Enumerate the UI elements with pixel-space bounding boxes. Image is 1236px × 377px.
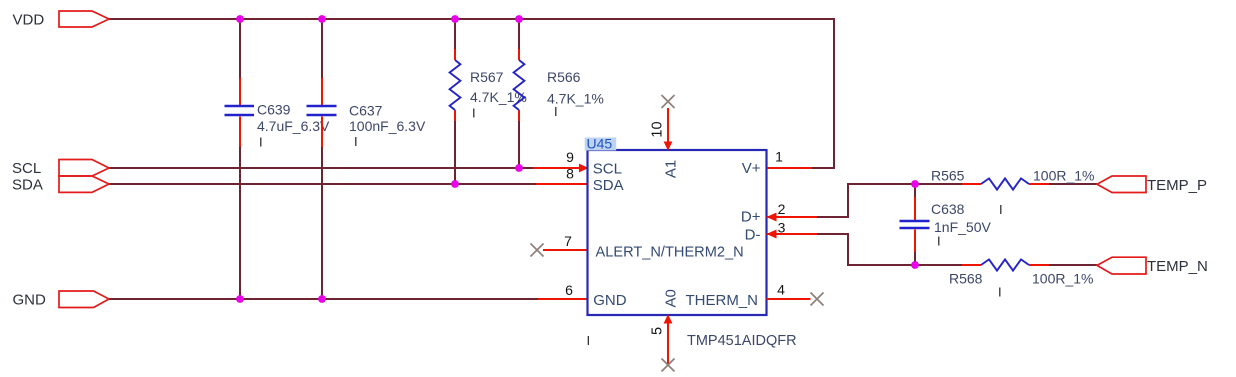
wire C638 branch vertical — [914, 184, 916, 265]
svg-text:GND: GND — [13, 292, 47, 309]
svg-text:I: I — [259, 135, 263, 150]
svg-text:V+: V+ — [742, 160, 761, 177]
wire SCL horizontal — [109, 167, 533, 169]
pin 5 arrow — [664, 314, 673, 323]
svg-text:4.7uF_6.3V: 4.7uF_6.3V — [257, 118, 330, 134]
svg-text:I: I — [472, 106, 476, 121]
svg-text:VDD: VDD — [13, 12, 45, 29]
wire pin5 A0 — [667, 324, 669, 365]
svg-text:I: I — [937, 234, 941, 249]
junction SDA/R567 — [451, 180, 459, 188]
wire C639 branch — [239, 19, 241, 299]
svg-text:R567: R567 — [470, 69, 504, 85]
wire pin3 D- red stub — [767, 233, 818, 235]
wire pin1 V+ red stub — [767, 167, 813, 169]
svg-text:100nF_6.3V: 100nF_6.3V — [349, 118, 426, 134]
svg-text:ALERT_N/THERM2_N: ALERT_N/THERM2_N — [596, 245, 744, 261]
wire D- to branch — [817, 234, 915, 265]
svg-text:100R_1%: 100R_1% — [1033, 168, 1095, 184]
capacitor C639 — [225, 106, 255, 115]
svg-text:C639: C639 — [257, 102, 291, 118]
wire GND horizontal — [109, 298, 538, 300]
wire D+ to branch — [817, 184, 915, 217]
svg-text:R568: R568 — [949, 271, 983, 287]
pin 3 arrow — [767, 230, 777, 239]
junction VDD/C639 — [236, 15, 244, 23]
svg-text:7: 7 — [564, 233, 572, 249]
wire GND red stub pin6 — [538, 298, 587, 300]
svg-text:THERM_N: THERM_N — [685, 292, 758, 309]
junction D-/C638 — [911, 261, 919, 269]
svg-text:SCL: SCL — [593, 161, 622, 178]
svg-text:100R_1%: 100R_1% — [1032, 271, 1094, 287]
svg-text:R566: R566 — [547, 69, 581, 85]
wire pin7 ALERT_N — [543, 249, 587, 251]
svg-text:I: I — [554, 104, 558, 119]
U45 refdes highlight — [585, 138, 617, 151]
wire pin4 THERM_N — [767, 298, 811, 300]
wire C637 branch — [321, 19, 323, 299]
pin 9 arrow — [579, 164, 589, 173]
svg-text:U45: U45 — [587, 136, 613, 152]
no-connect X pin4 — [811, 293, 824, 306]
wire SDA red stub pin8 — [536, 183, 587, 185]
svg-text:A0: A0 — [663, 289, 680, 307]
pin 2 arrow — [767, 213, 777, 222]
svg-text:I: I — [998, 285, 1002, 300]
svg-text:8: 8 — [566, 166, 574, 182]
wire TEMP_N net — [915, 264, 1097, 266]
resistor R568 — [981, 259, 1029, 270]
wire R566 branch — [518, 19, 520, 168]
wire TEMP_P net — [915, 183, 1097, 185]
port TEMP_P — [1097, 176, 1146, 193]
svg-text:SCL: SCL — [12, 160, 41, 177]
port TEMP_N — [1097, 257, 1146, 274]
svg-text:TMP451AIDQFR: TMP451AIDQFR — [687, 333, 797, 349]
svg-text:6: 6 — [565, 282, 573, 298]
svg-text:C637: C637 — [349, 103, 383, 119]
capacitor C637 — [307, 106, 337, 115]
wire SCL red stub pin9 — [533, 167, 580, 169]
port SDA — [59, 176, 109, 192]
op IC U45 box — [588, 150, 767, 315]
no-connect X pin7 — [531, 244, 544, 257]
capacitor C638 — [900, 221, 930, 228]
port VDD — [59, 11, 109, 27]
wire pin2 D+ red stub — [767, 216, 818, 218]
resistor R567 — [450, 60, 461, 110]
port GND — [59, 291, 109, 308]
wire pin10 A1 — [667, 108, 669, 142]
svg-text:TEMP_P: TEMP_P — [1147, 177, 1207, 194]
svg-text:GND: GND — [593, 292, 627, 309]
svg-text:TEMP_N: TEMP_N — [1147, 258, 1208, 275]
svg-text:C638: C638 — [931, 201, 965, 217]
no-connect X pin5 — [662, 359, 675, 372]
pin 10 arrow — [664, 142, 673, 151]
svg-text:I: I — [587, 333, 591, 348]
wire R567 branch — [454, 19, 456, 184]
no-connect X pin10 — [662, 95, 675, 108]
port SCL — [59, 160, 109, 177]
svg-text:1: 1 — [775, 149, 783, 165]
svg-text:4: 4 — [777, 282, 785, 298]
svg-text:D-: D- — [745, 227, 761, 244]
wire VDD horizontal bus to V+ corner — [109, 19, 834, 168]
svg-text:2: 2 — [778, 201, 786, 217]
svg-text:SDA: SDA — [12, 177, 43, 194]
svg-text:SDA: SDA — [593, 177, 624, 194]
resistor R566 — [514, 60, 525, 110]
junction VDD/R567 — [451, 15, 459, 23]
wire SDA horizontal — [109, 183, 536, 185]
svg-text:5: 5 — [649, 327, 665, 335]
junction SCL/R566 — [515, 164, 523, 172]
junction VDD/C637 — [318, 15, 326, 23]
svg-text:9: 9 — [566, 149, 574, 165]
junction GND/C639 — [236, 295, 244, 303]
junction VDD/R566 — [515, 15, 523, 23]
svg-text:10: 10 — [649, 121, 665, 137]
svg-text:D+: D+ — [741, 209, 761, 226]
resistor R565 — [981, 178, 1029, 189]
junction GND/C637 — [318, 295, 326, 303]
junction D+/C638 — [911, 180, 919, 188]
svg-text:R565: R565 — [931, 168, 965, 184]
svg-text:1nF_50V: 1nF_50V — [934, 219, 991, 235]
svg-text:A1: A1 — [663, 160, 680, 178]
svg-text:I: I — [354, 134, 358, 149]
svg-text:I: I — [999, 202, 1003, 217]
